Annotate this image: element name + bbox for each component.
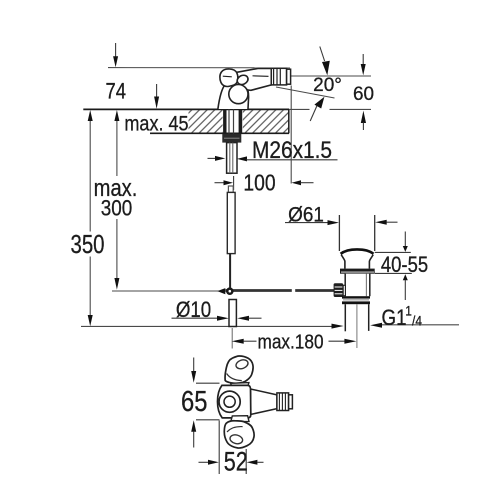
waste tailpipe <box>344 304 346 331</box>
wire 20 deg sloped line <box>276 87 335 98</box>
faucet supply tube <box>227 192 235 253</box>
faucet lift rod upper <box>229 254 231 288</box>
wire 350 bottom rail <box>81 325 332 327</box>
node 40-55 dimension <box>375 251 411 253</box>
svg-text:Ø61: Ø61 <box>288 203 324 226</box>
waste neck <box>341 255 345 269</box>
bottomview bottom neck <box>231 416 249 422</box>
node 74 top arrow <box>115 43 117 57</box>
label 65 <box>181 385 207 418</box>
faucet shank through deck <box>223 109 226 133</box>
label max. 45 <box>124 112 188 136</box>
wire max300 vertical dimension line <box>116 121 118 279</box>
svg-text:350: 350 <box>70 230 104 259</box>
svg-text:1: 1 <box>405 303 412 319</box>
linkage joint <box>226 287 234 295</box>
waste flange extension sides <box>338 215 340 251</box>
faucet threaded shank tube <box>227 143 237 174</box>
node G1-1/4 left arrow <box>332 324 344 329</box>
faucet hub circle <box>229 85 248 104</box>
faucet handle knob side <box>220 69 238 87</box>
label 100 <box>243 171 275 196</box>
bottomview top neck <box>231 383 249 388</box>
bottomview top knob <box>225 356 253 383</box>
waste rod knob <box>334 283 344 297</box>
svg-text:M26x1.5: M26x1.5 <box>252 136 332 163</box>
label 60 <box>353 84 374 105</box>
faucet aerator <box>271 68 286 85</box>
wire aerator extension line <box>290 86 292 184</box>
bottomview bonnet rings <box>219 391 240 412</box>
waste body <box>345 274 370 297</box>
label 40-55 <box>381 253 428 277</box>
label 350 <box>70 230 104 259</box>
svg-text:40-55: 40-55 <box>381 253 428 277</box>
faucet tailpiece nub <box>228 186 233 192</box>
wire 350 vertical dimension line <box>89 121 91 316</box>
waste lock nut <box>342 296 370 298</box>
linkage rod left cap <box>217 288 225 294</box>
label Ø61 <box>288 203 324 226</box>
waste rim <box>340 269 375 274</box>
faucet spout <box>234 68 271 90</box>
deck hatched countertop <box>83 109 289 133</box>
svg-text:20°: 20° <box>313 75 342 96</box>
wire 100 dimension <box>215 182 225 184</box>
svg-text:65: 65 <box>181 385 207 418</box>
label 52 <box>224 447 248 477</box>
faucet mounting nut <box>222 134 241 143</box>
node 20 deg arrow on sloped line <box>310 105 317 122</box>
wire center line below rod <box>231 328 233 349</box>
wire spout axis line for 20 deg <box>291 75 372 77</box>
bottomview aerator <box>277 393 289 411</box>
svg-text:/4: /4 <box>412 312 422 328</box>
waste knob connector <box>343 285 345 295</box>
svg-text:max. 45: max. 45 <box>124 112 188 136</box>
svg-text:max.180: max.180 <box>257 331 323 354</box>
node 60 bottom arrow <box>361 111 366 123</box>
node G1-1/4 right arrow <box>370 323 382 328</box>
faucet handle cap <box>236 74 250 87</box>
linkage horizontal rod <box>217 287 334 295</box>
waste plug dome <box>341 249 374 253</box>
label G1 1/4 <box>382 306 407 330</box>
wire deck extension line right <box>289 108 310 110</box>
svg-text:300: 300 <box>101 196 133 221</box>
node 52 dimension <box>218 421 220 475</box>
node 60 top arrow <box>362 54 364 65</box>
node 20 deg arrow on horizontal <box>320 47 325 62</box>
bottomview spout cone <box>251 389 278 414</box>
wire max300 bottom rail <box>112 290 219 292</box>
node max180 dimension <box>232 339 244 344</box>
label max.180 <box>257 331 323 354</box>
node Ø61 dimension <box>285 222 328 224</box>
svg-text:60: 60 <box>353 84 374 105</box>
faucet F1 bottom view <box>218 356 293 448</box>
node M26x1.5 arrows and leader <box>208 157 216 159</box>
label M26x1.5 <box>252 136 332 163</box>
node 65 dimension <box>196 382 220 384</box>
svg-text:G1: G1 <box>382 306 407 330</box>
faucet base <box>218 85 249 109</box>
label max. 300 <box>94 175 138 202</box>
wire spout-level reference line A <box>108 67 290 69</box>
node Ø10 dimension with rod <box>229 300 236 327</box>
svg-text:74: 74 <box>105 80 126 104</box>
faucet F1 side view <box>218 68 291 287</box>
label Ø10 <box>176 299 211 323</box>
label 74 <box>105 80 126 104</box>
label 20° <box>313 75 342 96</box>
bottomview body <box>218 385 251 418</box>
node 74 bottom arrow <box>156 84 158 97</box>
bottomview bottom knob <box>224 421 254 448</box>
svg-text:Ø10: Ø10 <box>176 299 211 323</box>
svg-text:100: 100 <box>243 171 275 196</box>
popup waste assembly <box>334 215 375 348</box>
svg-text:52: 52 <box>224 447 248 477</box>
